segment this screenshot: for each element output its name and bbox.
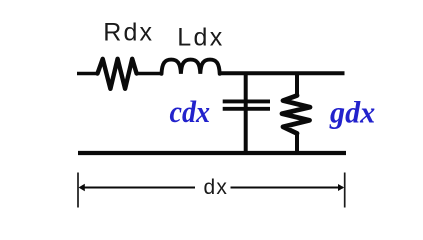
svg-text:Rdx: Rdx: [103, 19, 154, 47]
dimension line dx: right extension tick: [344, 173, 346, 208]
dimension line dx: right arrowhead: [338, 184, 344, 191]
label Rdx: [103, 19, 154, 47]
svg-text:gdx: gdx: [329, 95, 375, 130]
svg-text:cdx: cdx: [170, 94, 211, 129]
label gdx: [329, 95, 375, 130]
svg-text:dx: dx: [204, 176, 229, 199]
dimension line dx: left arrowhead: [79, 184, 85, 191]
wire: bottom conductor (return path): [78, 151, 346, 155]
capacitor cdx: top plate: [223, 99, 270, 103]
wire: top conductor left lead: [77, 72, 98, 75]
resistor gdx: bottom stem: [295, 133, 299, 154]
dimension line dx: right horizontal segment: [231, 187, 344, 189]
resistor gdx: zigzag body: [282, 96, 310, 134]
wire: top conductor between Rdx and Ldx: [137, 72, 162, 75]
resistor Rdx (series resistance R·dx): [98, 59, 137, 89]
label cdx: [170, 94, 211, 129]
capacitor cdx: bottom plate: [223, 107, 270, 111]
inductor Ldx (series inductance L·dx): [162, 60, 220, 74]
label dx: [204, 176, 229, 199]
svg-text:Ldx: Ldx: [177, 24, 225, 52]
label Ldx: [177, 24, 225, 52]
resistor gdx (shunt conductance G·dx): top stem: [295, 72, 299, 96]
dimension line dx: left horizontal segment: [80, 187, 195, 189]
dimension line dx: left extension tick: [77, 173, 79, 208]
wire: top conductor right segment: [220, 71, 345, 75]
capacitor cdx (shunt capacitance C·dx): vertical stem: [244, 72, 248, 155]
